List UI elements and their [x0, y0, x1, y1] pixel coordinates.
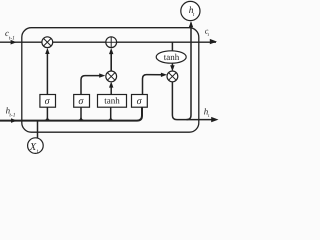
- svg-text:tanh: tanh: [164, 52, 180, 62]
- svg-text:X: X: [29, 142, 37, 153]
- svg-text:t-1: t-1: [9, 35, 15, 41]
- svg-text:t: t: [208, 114, 210, 119]
- svg-text:tanh: tanh: [104, 96, 120, 106]
- svg-text:t-1: t-1: [9, 112, 15, 118]
- svg-text:t: t: [208, 33, 210, 38]
